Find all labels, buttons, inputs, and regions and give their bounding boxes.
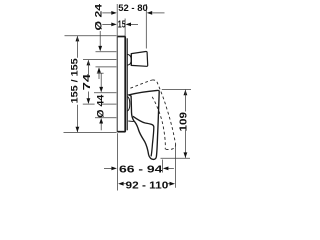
wire plate bottom extension line — [64, 131, 117, 133]
dashed handle inner edge (raised position) — [152, 97, 165, 149]
dashed handle top edge (raised position) — [130, 80, 152, 88]
dimension 92 - 110 — [118, 181, 175, 192]
svg-text:74: 74 — [82, 73, 93, 90]
svg-text:66 - 94: 66 - 94 — [119, 164, 163, 175]
lever hub underside tick — [128, 120, 133, 123]
wire bottom-left shared extension line — [117, 133, 119, 190]
svg-text:52 - 80: 52 - 80 — [118, 3, 148, 14]
svg-text:155 / 155: 155 / 155 — [70, 58, 81, 104]
diverter knob body — [131, 51, 147, 66]
leader Ø44 upper arrow — [100, 73, 102, 87]
wire 109 bottom extension line — [161, 157, 191, 159]
wire hub bottom extension line — [95, 117, 116, 119]
lever front inner edge — [133, 116, 154, 156]
dashed handle outer edge (raised position) — [152, 80, 175, 144]
dashed handle tip (raised position) — [165, 144, 175, 150]
wire knob top extension line — [96, 51, 117, 53]
dimension 74 (rotated) — [82, 60, 93, 104]
wire 66-94 right extension line — [161, 160, 163, 173]
leader Ø24 upper arrow — [99, 31, 101, 47]
dimension 109 (rotated) — [178, 90, 189, 158]
escutcheon plate (side view) — [117, 36, 128, 133]
wire handle axis extension line — [83, 103, 95, 105]
wire hub top extension line — [94, 92, 116, 94]
svg-text:Ø 24: Ø 24 — [94, 4, 104, 31]
svg-text:109: 109 — [178, 111, 189, 131]
wire plate top extension line — [65, 35, 117, 37]
diverter knob body left edge — [130, 54, 132, 66]
dimension 52 - 80 — [102, 3, 164, 15]
wire 92-110 right extension line — [174, 146, 176, 188]
svg-text:Ø 44: Ø 44 — [96, 95, 106, 118]
diverter knob neck — [127, 54, 131, 65]
wire extension line right of 15 (plate face reference) — [124, 19, 126, 37]
wire knob bottom extension line — [96, 66, 117, 68]
wire extension line left vertical (wall reference above plate) — [116, 4, 118, 37]
leader Ø24 lower arrow — [97, 67, 101, 73]
svg-text:92 - 110: 92 - 110 — [126, 181, 169, 192]
handle hub neck — [127, 97, 130, 112]
wire 109 top extension line — [162, 88, 191, 90]
dimension 66 - 94 — [104, 164, 174, 175]
leader Ø44 lower arrow — [99, 118, 103, 124]
wire extension line right of 52-80 (knob face reference) — [145, 4, 147, 49]
wire knob axis extension line — [83, 59, 116, 61]
tick between leaders — [97, 72, 104, 74]
dimension 15 — [102, 20, 138, 31]
dimension 155 / 155 (rotated) — [70, 36, 81, 132]
lever handle (side view) — [129, 90, 159, 159]
svg-text:15: 15 — [118, 20, 126, 31]
